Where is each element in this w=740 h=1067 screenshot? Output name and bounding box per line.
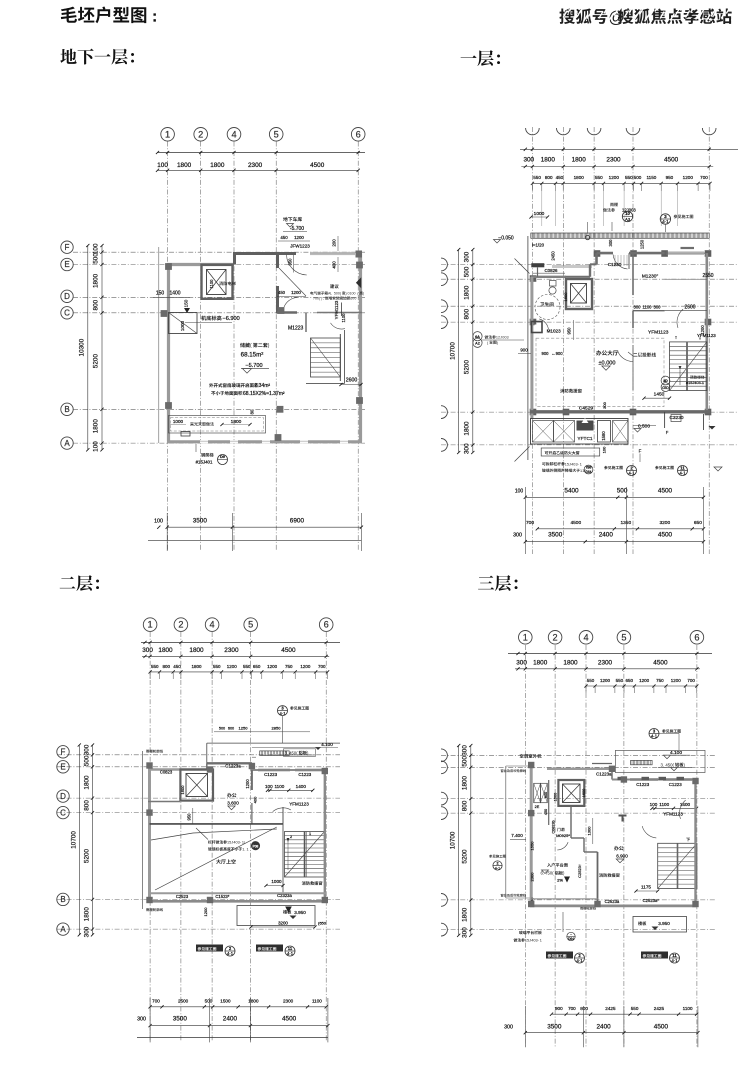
svg-text:1: 1 [227,841,229,845]
svg-text:C1223a: C1223a [225,764,241,769]
svg-text:B: B [60,895,65,904]
svg-text:10: 10 [625,211,630,216]
svg-text:3.600: 3.600 [227,801,239,806]
svg-text:100: 100 [602,446,607,453]
svg-text:#15J401: #15J401 [196,460,213,465]
svg-text:100: 100 [154,519,163,525]
svg-text:0: 0 [352,297,354,301]
plan4 楼板 box bottom [608,917,633,933]
svg-text:1800: 1800 [191,664,202,669]
svg-text:-: - [538,939,540,943]
svg-text:300: 300 [83,926,90,937]
svg-text:2: 2 [498,336,500,340]
plan1 skylight dashed rect [169,416,266,434]
svg-text:150: 150 [184,299,189,307]
svg-text:100: 100 [265,784,273,789]
svg-text:6900: 6900 [290,518,305,525]
svg-text:750: 750 [285,664,293,669]
svg-text:450: 450 [280,235,288,240]
svg-text:800: 800 [544,792,548,798]
plan3 right wall [324,770,326,902]
svg-text:300: 300 [137,1017,146,1023]
svg-text:800: 800 [83,800,90,811]
svg-text:500: 500 [219,727,225,731]
plan3 bottom dims [150,1006,326,1008]
svg-text:10700: 10700 [450,342,457,360]
plan1 outer wall left [167,265,170,442]
svg-text:1: 1 [242,848,244,852]
svg-text:2600: 2600 [684,305,695,311]
svg-text:6: 6 [694,632,699,642]
svg-text:4-1: 4-1 [495,867,501,871]
svg-text:C4529: C4529 [579,406,593,412]
svg-text:500: 500 [634,175,642,180]
svg-text:550: 550 [595,175,603,180]
svg-text:4500: 4500 [658,532,673,539]
svg-text:450: 450 [556,175,564,180]
svg-text:400: 400 [332,261,337,269]
plan4 bottom leaders [546,952,573,959]
svg-text:−6.900: −6.900 [223,316,240,322]
svg-text:1800: 1800 [563,660,578,667]
plan2 toilet fixtures + dashed circle 卫生间 [535,295,560,320]
plan3 axis horizontals [57,754,340,756]
svg-text:i=1/20: i=1/20 [532,243,545,248]
svg-text:11: 11 [680,465,685,470]
plan4 text 空调室外机 [520,754,542,758]
plan4 楼板 3.950 [633,917,687,933]
svg-text:1600: 1600 [554,793,558,801]
svg-text:.: . [244,848,245,852]
plan4 canopy/parapet outline left [505,766,507,898]
plan2 bottom main wall (dark) [530,410,710,413]
svg-text:3500: 3500 [193,518,208,525]
svg-text:1500: 1500 [220,999,231,1004]
svg-text:1200: 1200 [683,175,694,180]
plan3 canopy top right [207,742,340,744]
svg-text:F: F [666,430,669,435]
plan2 door arc row C right (YFM1123) [677,309,683,328]
svg-text:700: 700 [152,999,160,1004]
svg-text:C1223: C1223 [298,772,311,777]
plan1 ramp door left (1000) [169,313,198,334]
plan1 bottom wall ticks (windows marks) [200,440,208,443]
plan1 text 机底标高-6.900 [201,316,221,321]
svg-text:100: 100 [650,802,658,807]
svg-text:M1023: M1023 [547,328,561,333]
svg-text:B: B [64,405,69,414]
svg-text:L: L [330,292,332,296]
svg-text:): ) [321,297,322,301]
svg-text:950: 950 [187,813,192,821]
svg-text:-: - [240,841,242,845]
svg-text:,: , [323,297,324,301]
svg-text:1800: 1800 [93,419,100,434]
plan2 window band YFTC1 with X panes [531,419,629,445]
plan4 right wall [694,780,696,907]
svg-text:500: 500 [205,999,213,1004]
svg-text:5200: 5200 [462,849,469,864]
svg-text:F: F [61,748,66,757]
svg-text:6: 6 [350,297,352,301]
svg-text:4-1: 4-1 [662,219,669,224]
svg-text:950: 950 [287,258,292,266]
svg-text:1800: 1800 [177,162,192,169]
svg-text:J: J [231,841,233,845]
svg-text:): ) [268,343,270,349]
svg-text:300: 300 [634,305,642,310]
svg-text:0: 0 [315,297,317,301]
svg-text:3500: 3500 [547,1023,562,1030]
svg-text:C0823b: C0823b [552,820,556,833]
svg-text:1350: 1350 [620,520,631,526]
plan4 axis verticals [524,645,526,1047]
svg-text:D: D [64,292,70,301]
svg-text:5: 5 [229,841,231,845]
svg-text:2425: 2425 [605,1006,616,1011]
svg-text:5: 5 [248,620,253,630]
plan4 text 入户平台面 6.750 [547,863,568,867]
plan1 outer wall right [359,254,362,442]
svg-text:(: ( [552,871,554,876]
plan2 canopy hatched fascia [531,233,709,238]
svg-text:2600: 2600 [346,378,358,384]
svg-text:3.950: 3.950 [658,921,670,926]
svg-text:1100: 1100 [341,313,346,323]
svg-text:/: / [244,841,246,845]
svg-text:−: − [570,932,572,936]
plan1 left dimension band [87,246,89,450]
plan3 interior walls near axis5 [251,770,253,790]
svg-text:(: ( [340,292,342,296]
svg-text:5400: 5400 [564,487,579,494]
svg-text:1800: 1800 [93,273,100,288]
plan1 leader 钢爬梯 #15J401 D9 [201,453,213,457]
svg-text:C: C [64,309,70,318]
title 毛坯户型图: [61,7,146,24]
svg-text:300: 300 [464,443,471,454]
subtitle 三层: [478,575,518,591]
svg-text:4500: 4500 [570,520,581,526]
svg-text:): ) [345,292,346,296]
svg-text:0: 0 [338,292,340,296]
plan2 消防救援窗 [560,389,582,393]
svg-text:C1230: C1230 [608,262,622,267]
svg-text:0: 0 [348,292,350,296]
plan4 elevator [558,780,584,806]
svg-text:): ) [497,341,499,345]
svg-text:0: 0 [317,297,319,301]
svg-text:5200: 5200 [93,354,100,369]
svg-text:4: 4 [210,620,215,630]
plan2 left dimension band [458,250,460,453]
svg-text:650: 650 [253,664,261,669]
plan3 grid bubbles top [143,618,157,632]
svg-text:J: J [569,462,571,466]
plan3 text 办公 3.600 [227,793,236,798]
svg-text:100: 100 [157,162,168,169]
svg-text:0: 0 [336,292,338,296]
svg-text:700: 700 [318,664,326,669]
svg-text:5: 5 [567,462,569,466]
svg-text:2400: 2400 [599,532,614,539]
svg-text:4: 4 [571,462,573,466]
svg-text:M1223: M1223 [288,326,304,332]
svg-text:550: 550 [616,678,624,683]
svg-text:M1230ʺ: M1230ʺ [642,273,659,280]
svg-text:100: 100 [93,243,100,254]
svg-text:±0.000: ±0.000 [598,361,615,367]
svg-text:1200: 1200 [291,290,301,295]
svg-text:1: 1 [523,632,528,642]
svg-text:1800: 1800 [189,647,204,654]
plan1 axis grid horizontals [73,251,365,253]
plan3 elevator [180,770,213,801]
svg-text:J: J [500,336,502,340]
svg-text:1200: 1200 [600,678,611,683]
svg-text:550: 550 [243,664,251,669]
svg-text:1000: 1000 [180,320,185,331]
plan1 elevator car with X [207,270,227,295]
svg-text:4-1: 4-1 [671,958,678,963]
svg-text:300: 300 [142,647,153,654]
svg-text:4500: 4500 [282,1016,297,1023]
plan3 top dimension band [141,641,340,643]
svg-text:−5.700: −5.700 [245,363,262,369]
svg-text:F: F [639,449,642,454]
subtitle 地下一层: [60,49,134,65]
svg-text:3: 3 [536,939,538,943]
plan4 stairs [658,843,697,888]
svg-text:900: 900 [542,351,550,356]
svg-text:500: 500 [462,756,469,767]
svg-text:1: 1 [165,129,170,139]
svg-text:(: ( [673,762,675,767]
svg-text:10300: 10300 [79,338,86,356]
svg-text:4500: 4500 [653,660,668,667]
svg-text:5200: 5200 [464,360,471,375]
svg-text:1200: 1200 [267,664,278,669]
plan4 interior wall vertical x~571 [570,806,572,838]
svg-text:3: 3 [664,214,667,219]
plan3 top wall right section + C1223a [206,763,208,769]
svg-text:1580: 1580 [601,431,606,441]
svg-text:900: 900 [555,1006,563,1011]
svg-text:7.400: 7.400 [511,833,523,838]
svg-text:1800: 1800 [83,775,90,790]
svg-text:C0826: C0826 [545,268,558,273]
svg-text:4-1: 4-1 [287,951,294,956]
svg-text:JFW1223: JFW1223 [290,244,310,249]
svg-text:11: 11 [672,953,677,958]
plan1 door JFM1223 top right (arc) [287,255,307,275]
svg-text:2%: 2% [557,878,563,883]
plan4 building top wall [547,768,612,770]
svg-text:C5D: C5D [662,386,669,390]
svg-text:C2523a*: C2523a* [643,898,660,903]
plan3 top wall [148,768,213,771]
svg-text:3.950: 3.950 [294,910,306,915]
svg-text:3: 3 [507,336,509,340]
svg-text:300: 300 [464,251,471,262]
svg-text:750: 750 [656,678,664,683]
plan2 toilet door M1023 [539,319,548,330]
svg-text:300: 300 [504,1024,513,1030]
svg-text:300: 300 [462,745,469,756]
svg-text:4500: 4500 [654,1023,669,1030]
svg-text:1250: 1250 [640,239,645,249]
plan3 leader 栏杆做法 [208,840,246,844]
svg-text:800: 800 [163,664,171,669]
svg-text:-5.700: -5.700 [290,226,304,232]
svg-text:1: 1 [580,469,582,473]
svg-text:C1223: C1223 [264,772,277,777]
svg-text:0: 0 [502,336,504,340]
svg-text:A2: A2 [475,342,480,346]
plan2 leader 雨棚 10/A3 [603,208,615,212]
svg-text:800: 800 [580,1006,588,1011]
plan2 right bottom exit [664,412,666,428]
plan4 dims 100 1100 1400 [652,807,697,809]
svg-text:2500: 2500 [178,999,189,1004]
svg-text:10700: 10700 [450,831,457,849]
svg-text:1800: 1800 [574,175,585,180]
plan1 small pit rect [181,432,190,437]
plan1 right wall window triangle [356,277,361,288]
plan4 left dims [458,746,460,936]
svg-text:1550: 1550 [530,841,535,851]
svg-text:A3: A3 [625,217,631,222]
svg-text:(: ( [250,343,252,349]
plan1 stair side walls [305,313,307,333]
svg-text:500: 500 [83,755,90,766]
svg-text:4: 4 [531,939,533,943]
plan4 door M0925 [557,828,564,832]
svg-text:1800: 1800 [210,162,225,169]
svg-text:M0925*: M0925* [556,833,570,838]
plan2 二层投影线 label + dashed rect [633,353,656,357]
plan4 left leader 参见施工图 2/4-1 [489,855,506,858]
plan3 canopy vertical line left [142,751,144,909]
plan1 door M1123 right side vertical [331,323,345,329]
svg-text:2300: 2300 [606,157,621,164]
svg-text:4-1: 4-1 [279,711,286,716]
svg-text:4-1: 4-1 [576,958,583,963]
plan2 corner columns [530,275,537,282]
plan2 stairs [670,342,707,391]
plan2 top right window C1220 [665,252,706,254]
plan4 axis horizontals [441,754,715,756]
svg-text:5: 5 [527,939,529,943]
svg-text:1200: 1200 [639,678,650,683]
svg-text:3500: 3500 [548,532,563,539]
svg-text:4-1: 4-1 [679,471,686,476]
plan3 grid bubbles left [57,746,69,758]
svg-text:(: ( [487,341,489,345]
svg-text:1: 1 [580,462,582,466]
svg-text:1100: 1100 [312,999,322,1004]
plan1 grid bubbles left F E D C B A [61,241,73,253]
svg-text:0: 0 [573,462,575,466]
plan3 dims 100 1100 1400 [268,789,313,791]
plan3 bottom leaders [196,945,223,952]
plan4 walls around entry room [548,780,550,825]
svg-text:6A: 6A [475,335,480,339]
svg-text:D9: D9 [220,455,225,459]
svg-text:1200: 1200 [227,664,238,669]
svg-text:300: 300 [462,927,469,938]
svg-text:E: E [60,763,65,772]
svg-text:650: 650 [625,678,633,683]
svg-text:400: 400 [253,796,258,803]
svg-text:1100: 1100 [642,305,652,310]
svg-text:2: 2 [178,620,183,630]
svg-text:0: 0 [354,297,356,301]
svg-text:1: 1 [525,939,527,943]
plan1 left boundary thin line [158,247,160,443]
svg-text:900: 900 [520,348,528,353]
svg-text:#15J403-1: #15J403-1 [686,381,704,385]
svg-text:C0823: C0823 [160,770,173,775]
svg-text:1800: 1800 [464,285,471,300]
svg-text:2400: 2400 [596,1023,611,1030]
plan3 void boundary (大厅上空) [150,823,284,825]
plan4 left wall [530,763,533,906]
svg-text:1800: 1800 [231,419,242,425]
svg-text:68.15m²: 68.15m² [241,352,264,359]
plan2 door YFM1123 on center wall [618,351,634,362]
svg-text:2400: 2400 [223,1016,238,1023]
plan1 top dimension band [158,152,366,154]
svg-text:4: 4 [583,632,588,642]
svg-text:800: 800 [93,299,100,310]
svg-text:550: 550 [533,175,541,180]
plan4 bottom wall [530,905,697,908]
plan1 stairs right [311,338,341,377]
watermark 搜狐号@搜狐焦点孝感站 [559,8,731,26]
svg-text:1100: 1100 [209,279,214,289]
plan3 stairs [285,832,325,878]
svg-text:1800: 1800 [572,157,587,164]
plan3 building left wall [148,764,151,903]
svg-text:1800: 1800 [158,647,173,654]
svg-text:700: 700 [687,678,695,683]
svg-text:YFTC1: YFTC1 [577,436,593,442]
svg-text:3200: 3200 [659,520,670,526]
svg-text:2425: 2425 [654,1006,665,1011]
svg-text:D64: D64 [586,470,592,474]
plan2 left wall [530,277,533,419]
svg-text:4500: 4500 [281,647,296,654]
plan1 door M1223 (arc) [284,298,298,309]
svg-text:450: 450 [173,664,181,669]
svg-text:1600: 1600 [582,789,586,797]
plan2 bottom leader texts [541,448,600,456]
plan1 elevator shaft walls [202,265,233,299]
svg-text:1: 1 [350,292,352,296]
plan4 bottom dims [552,1013,697,1015]
svg-text:7B0: 7B0 [586,465,592,469]
svg-text:.: . [663,762,664,767]
svg-text:C2523a: C2523a [605,899,620,904]
plan1 interior wall row C right part [277,311,297,314]
plan2 room text 办公大厅 ±0.000 [596,350,618,355]
svg-text:1200: 1200 [671,678,682,683]
svg-text:800: 800 [464,308,471,319]
svg-text:2300: 2300 [598,660,613,667]
plan2 top dimension band [520,148,738,150]
svg-text:500: 500 [93,253,100,264]
